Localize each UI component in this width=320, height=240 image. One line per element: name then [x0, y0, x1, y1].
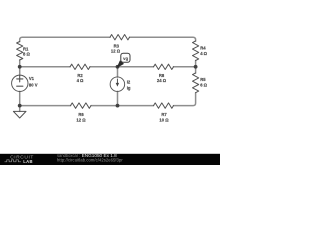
junction node dots	[18, 65, 198, 108]
wires (light)	[20, 37, 196, 111]
resistor R4	[193, 41, 199, 61]
svg-text:V1: V1	[29, 76, 35, 81]
resistor R8	[154, 64, 174, 69]
svg-text:12 Ω: 12 Ω	[111, 49, 121, 54]
wire top right of R3 to top-right corner	[130, 37, 196, 41]
wire I2 bottom	[117, 91, 119, 105]
svg-text:24 Ω: 24 Ω	[157, 78, 167, 83]
wire I2 top	[117, 67, 119, 77]
wire R2 to center node	[90, 66, 118, 68]
svg-text:R7: R7	[161, 112, 167, 117]
node center-bottom junction	[116, 104, 120, 108]
resistor R7	[154, 103, 174, 108]
resistor R3	[110, 35, 130, 40]
svg-text:LAB: LAB	[23, 159, 33, 164]
svg-text:12 Ω: 12 Ω	[76, 117, 86, 122]
wire V1 bottom to bottom junction	[19, 91, 21, 105]
wire R8 to right rail	[174, 66, 196, 68]
voltage source V1 circle	[12, 75, 28, 91]
wire top-left corner	[20, 37, 110, 41]
wire R6 to bottom center node	[91, 105, 118, 107]
svg-text:8 Ω: 8 Ω	[23, 52, 30, 57]
node flag vg box	[121, 53, 130, 62]
resistor R1	[17, 42, 23, 61]
wire mid row left	[20, 66, 70, 68]
svg-text:80 V: 80 V	[29, 83, 38, 88]
node left-mid junction	[18, 65, 22, 69]
svg-text:R4: R4	[200, 46, 206, 51]
wire R5 bottom to bottom-right corner	[174, 93, 196, 106]
node center-mid junction vg	[116, 65, 120, 69]
svg-text:http://circuitlab.com/c/42s2e6: http://circuitlab.com/c/42s2e65f3pr	[57, 158, 123, 163]
resistor R5	[193, 73, 199, 93]
wire ground stub	[19, 106, 21, 112]
svg-text:4 Ω: 4 Ω	[200, 51, 207, 56]
footer logo squarewave	[5, 160, 22, 162]
resistor R6	[71, 103, 92, 108]
wire R4 bottom to right mid junction	[195, 61, 197, 74]
svg-text:R6: R6	[78, 112, 84, 117]
node left-bottom junction	[18, 104, 22, 108]
svg-text:R3: R3	[114, 43, 120, 48]
V1 plus sign	[17, 76, 23, 82]
svg-text:Ig: Ig	[127, 85, 131, 90]
current source I2 circle	[110, 77, 125, 92]
footer bar	[0, 154, 220, 165]
wire center node to R8	[118, 66, 154, 68]
node flag vg pointer	[117, 61, 123, 67]
wire R1 bottom to mid junction	[19, 60, 21, 75]
wire bottom center node to R7	[118, 105, 154, 107]
current source I2 arrow	[116, 79, 119, 87]
svg-text:4 Ω: 4 Ω	[77, 78, 84, 83]
svg-text:vg: vg	[123, 56, 128, 61]
svg-text:6 Ω: 6 Ω	[200, 82, 207, 87]
svg-text:R1: R1	[23, 46, 29, 51]
node right-mid junction	[194, 65, 198, 69]
labels	[23, 43, 208, 122]
components (dark)	[12, 35, 199, 119]
svg-text:R5: R5	[200, 77, 206, 82]
resistor R2	[70, 64, 90, 69]
svg-text:10 Ω: 10 Ω	[159, 117, 169, 122]
wire bottom row left	[20, 105, 71, 107]
ground symbol	[13, 111, 26, 118]
V1 minus sign	[17, 85, 23, 87]
